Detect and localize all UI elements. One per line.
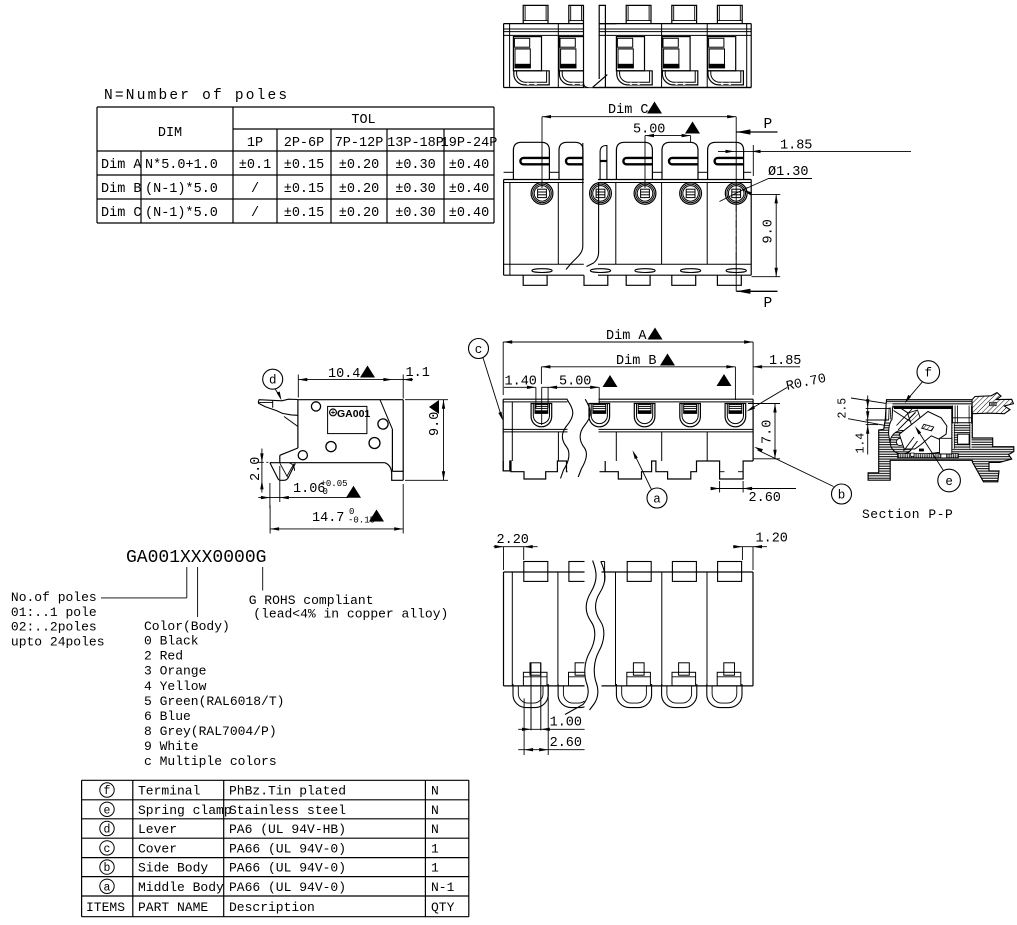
bottom view pin wide rect bbox=[569, 672, 593, 686]
top view pole separators bbox=[557, 24, 559, 88]
svg-text:Dim B: Dim B bbox=[616, 354, 657, 369]
svg-text:QTY: QTY bbox=[431, 900, 455, 915]
dim Dim C bbox=[542, 116, 736, 118]
svg-text:PhBz.Tin plated: PhBz.Tin plated bbox=[229, 784, 346, 799]
parts table row Cover bbox=[100, 841, 114, 855]
front view lever bbox=[616, 142, 652, 179]
front view lever slot bbox=[669, 158, 698, 164]
svg-text:/: / bbox=[251, 182, 259, 197]
svg-text:9 White: 9 White bbox=[144, 739, 199, 754]
front view lever bbox=[708, 142, 744, 179]
section P-P lever cut flag bbox=[972, 393, 1013, 414]
front view body bbox=[504, 179, 752, 181]
svg-text:P: P bbox=[764, 296, 773, 312]
svg-text:PA6 (UL 94V-HB): PA6 (UL 94V-HB) bbox=[229, 822, 346, 837]
dimAB wire clamp D bbox=[725, 404, 746, 427]
bottom view pin tab bbox=[524, 562, 548, 582]
side view foot bbox=[270, 463, 295, 481]
svg-text:a: a bbox=[653, 492, 661, 506]
svg-text:02:..2poles: 02:..2poles bbox=[11, 620, 97, 635]
section P-P terminal plate f bbox=[894, 407, 952, 409]
svg-text:±0.20: ±0.20 bbox=[339, 206, 380, 221]
bottom view pole separators bbox=[557, 572, 559, 686]
top view horizontal bands bbox=[504, 28, 752, 30]
dim 10.4 side bbox=[298, 379, 413, 381]
dimAB break bbox=[568, 398, 599, 480]
svg-text:PA66 (UL 94V-0): PA66 (UL 94V-0) bbox=[229, 841, 346, 856]
svg-text:PART NAME: PART NAME bbox=[138, 900, 208, 915]
front view wire hole rings bbox=[634, 183, 656, 205]
side view inner wall bbox=[380, 400, 392, 429]
svg-text:Color(Body): Color(Body) bbox=[144, 619, 230, 634]
bottom view body bbox=[504, 571, 754, 573]
svg-text:N: N bbox=[431, 803, 439, 818]
front view lever bbox=[559, 142, 583, 179]
side view logo box bbox=[328, 406, 367, 433]
svg-text:Dim A: Dim A bbox=[606, 329, 647, 344]
svg-text:1.85: 1.85 bbox=[769, 354, 801, 369]
section P-P lever shaft bbox=[894, 411, 923, 430]
svg-text:1.4: 1.4 bbox=[855, 433, 868, 454]
dim 5.00 front bbox=[645, 135, 691, 137]
svg-text:±0.15: ±0.15 bbox=[284, 206, 325, 221]
bottom view pin end rect bbox=[633, 663, 644, 675]
front view lever slot bbox=[623, 158, 652, 164]
dimAB wire clamp D bbox=[589, 404, 610, 427]
svg-text:Dim C: Dim C bbox=[608, 103, 649, 118]
svg-text:Section P-P: Section P-P bbox=[862, 507, 953, 522]
top view break bbox=[584, 2, 599, 87]
bottom view pin end rect bbox=[724, 663, 735, 675]
svg-text:10.4: 10.4 bbox=[328, 367, 360, 382]
svg-text:±0.20: ±0.20 bbox=[339, 158, 380, 173]
top view clamp block bbox=[616, 37, 644, 71]
dim 2.60 AB bbox=[719, 481, 721, 493]
svg-text:N=Number of poles: N=Number of poles bbox=[104, 88, 289, 104]
bottom view pin wide rect bbox=[717, 672, 741, 686]
svg-text:±0.1: ±0.1 bbox=[239, 158, 271, 173]
svg-text:8 Grey(RAL7004/P): 8 Grey(RAL7004/P) bbox=[144, 724, 277, 739]
bottom view pin tab bbox=[627, 562, 651, 582]
svg-text:GA001XXX0000G: GA001XXX0000G bbox=[126, 548, 266, 568]
svg-text:5 Green(RAL6018/T): 5 Green(RAL6018/T) bbox=[144, 694, 284, 709]
top view lever tab bbox=[717, 5, 742, 23]
svg-text:3 Orange: 3 Orange bbox=[144, 664, 206, 679]
dim 1.06 side bbox=[258, 497, 348, 499]
svg-text:14.7: 14.7 bbox=[312, 511, 344, 526]
svg-text:PA66 (UL 94V-0): PA66 (UL 94V-0) bbox=[229, 880, 346, 895]
svg-text:b: b bbox=[838, 488, 846, 502]
svg-text:upto 24poles: upto 24poles bbox=[11, 635, 105, 650]
front view break bbox=[584, 140, 598, 276]
svg-text:±0.40: ±0.40 bbox=[449, 206, 490, 221]
dim 1.85 AB bbox=[753, 366, 800, 368]
svg-text:6 Blue: 6 Blue bbox=[144, 709, 191, 724]
section P-P bottom strip bbox=[898, 454, 959, 458]
svg-text:2 Red: 2 Red bbox=[144, 649, 183, 664]
front view lever bbox=[513, 142, 549, 179]
bottom view pin tab bbox=[569, 562, 593, 582]
svg-text:1.20: 1.20 bbox=[756, 532, 788, 547]
section P-P spring cut mark bbox=[922, 424, 934, 431]
section P-P wall slivers bbox=[953, 424, 955, 449]
front view bottom ovals bbox=[532, 269, 552, 273]
front view break pin tab bbox=[584, 275, 608, 285]
bottom view pin slot lines pole1 bbox=[530, 663, 532, 731]
dim 2.0 left side bbox=[261, 449, 263, 493]
svg-text:d: d bbox=[269, 374, 277, 388]
svg-text:2.0: 2.0 bbox=[249, 457, 264, 481]
top view clamp block bbox=[559, 37, 587, 71]
svg-text:Ø1.30: Ø1.30 bbox=[768, 165, 809, 180]
parts table row Spring clamp bbox=[100, 802, 114, 816]
section P-P cage window bbox=[953, 406, 972, 424]
svg-text:7.0: 7.0 bbox=[761, 420, 776, 444]
top view spring U bbox=[559, 71, 594, 85]
balloon a bbox=[647, 488, 667, 508]
svg-text:Dim A: Dim A bbox=[101, 158, 142, 173]
svg-text:c: c bbox=[104, 843, 111, 856]
svg-text:2.20: 2.20 bbox=[497, 533, 529, 548]
ordering code tick X1 bbox=[186, 567, 188, 598]
side view lever lower edge bbox=[284, 417, 298, 427]
dim 9.0 side bbox=[405, 399, 448, 401]
top view spring U bbox=[514, 71, 549, 85]
section P-P lower white pocket bbox=[940, 438, 952, 454]
balloon c bbox=[469, 339, 489, 359]
top view lever tab bbox=[569, 5, 584, 23]
section P-P side body cut bbox=[868, 400, 1014, 482]
front view wire hole rings bbox=[725, 183, 747, 205]
dimAB wire clamp D bbox=[531, 404, 552, 427]
svg-text:±0.15: ±0.15 bbox=[284, 158, 325, 173]
side view body outline bbox=[298, 399, 403, 401]
bottom view solder U bbox=[662, 684, 697, 708]
svg-text:±0.40: ±0.40 bbox=[449, 182, 490, 197]
svg-text:a: a bbox=[104, 881, 111, 894]
svg-text:Terminal: Terminal bbox=[138, 784, 201, 799]
svg-text:9.0: 9.0 bbox=[762, 219, 777, 243]
balloon f bbox=[917, 361, 940, 384]
top view lever tab bbox=[626, 5, 651, 23]
top view lever tab bbox=[523, 5, 548, 23]
dim 1.00 bbox=[518, 728, 584, 730]
section P-P top-left white wedge bbox=[886, 404, 893, 423]
svg-text:±0.20: ±0.20 bbox=[339, 182, 380, 197]
front view break sliver bbox=[600, 146, 607, 180]
svg-text:Cover: Cover bbox=[138, 841, 177, 856]
svg-text:0: 0 bbox=[323, 487, 328, 497]
front view pole separators bbox=[557, 183, 559, 265]
dimAB wire clamp D bbox=[634, 404, 655, 427]
svg-text:13P-18P: 13P-18P bbox=[387, 136, 444, 151]
svg-text:N*5.0+1.0: N*5.0+1.0 bbox=[145, 158, 218, 173]
svg-text:N: N bbox=[431, 822, 439, 837]
svg-text:±0.30: ±0.30 bbox=[395, 206, 436, 221]
front view wire hole rings bbox=[531, 183, 553, 205]
tolerance table grid bbox=[97, 106, 494, 108]
section P-P spring lines bbox=[904, 437, 915, 451]
bottom view pin tab bbox=[718, 562, 742, 582]
top view clamp block bbox=[708, 37, 736, 71]
top view spring U bbox=[708, 71, 743, 85]
balloon b bbox=[832, 484, 852, 504]
svg-text:±0.15: ±0.15 bbox=[284, 182, 325, 197]
dim 1.40 bbox=[504, 386, 536, 388]
svg-text:1.1: 1.1 bbox=[406, 366, 430, 381]
dimAB bottom teeth bbox=[503, 461, 573, 479]
svg-text:Description: Description bbox=[229, 900, 315, 915]
svg-text:c Multiple colors: c Multiple colors bbox=[144, 754, 277, 769]
bottom view break bbox=[585, 558, 602, 710]
bottom view pin wide rect bbox=[672, 672, 696, 686]
front view oval pole2 bbox=[590, 269, 610, 273]
svg-text:1: 1 bbox=[431, 861, 439, 876]
svg-text:b: b bbox=[104, 862, 111, 875]
top view lever tab bbox=[672, 5, 697, 23]
dim 2.5 line and arrows bbox=[867, 396, 869, 455]
section P-P spring seat notch bbox=[958, 434, 970, 444]
svg-text:5.00: 5.00 bbox=[633, 123, 665, 138]
svg-text:2.5: 2.5 bbox=[837, 398, 850, 419]
svg-text:P: P bbox=[764, 117, 773, 133]
bottom view solder U bbox=[558, 684, 593, 708]
svg-text:Stainless steel: Stainless steel bbox=[229, 803, 346, 818]
top view spring U bbox=[662, 71, 697, 85]
side view holes bbox=[311, 402, 320, 411]
bottom view solder U bbox=[513, 684, 548, 708]
balloon d bbox=[263, 369, 283, 389]
svg-text:(N-1)*5.0: (N-1)*5.0 bbox=[145, 206, 218, 221]
dimAB view body bbox=[503, 398, 753, 400]
svg-text:19P-24P: 19P-24P bbox=[441, 136, 498, 151]
section line P top bbox=[735, 117, 737, 292]
dim 1.1 side bbox=[403, 378, 412, 381]
front view lever slot bbox=[566, 158, 583, 164]
svg-text:9.0: 9.0 bbox=[428, 412, 443, 436]
front view lever bbox=[662, 142, 698, 179]
parts table grid bbox=[82, 779, 469, 781]
svg-text:1.85: 1.85 bbox=[780, 139, 812, 154]
svg-text:Side Body: Side Body bbox=[138, 861, 208, 876]
svg-text:f: f bbox=[104, 785, 111, 798]
dim 7.0 bbox=[748, 403, 780, 405]
dim 5.00 AB bbox=[542, 386, 600, 388]
svg-text:01:..1 pole: 01:..1 pole bbox=[11, 605, 97, 620]
svg-text:N-1: N-1 bbox=[431, 880, 455, 895]
parts table row Side Body bbox=[100, 860, 114, 874]
svg-text:1.40: 1.40 bbox=[505, 375, 537, 390]
svg-text:4 Yellow: 4 Yellow bbox=[144, 679, 207, 694]
front view lever top connectors bbox=[504, 171, 514, 173]
front view lever slot bbox=[715, 158, 744, 164]
front view wire hole rings bbox=[590, 183, 612, 205]
parts table row Terminal bbox=[100, 783, 114, 797]
section P-P wire hook bbox=[890, 431, 914, 455]
svg-text:±0.30: ±0.30 bbox=[395, 158, 436, 173]
dim 9.0 front bbox=[752, 193, 781, 195]
svg-text:e: e bbox=[104, 804, 111, 817]
parts table row Lever bbox=[100, 821, 114, 835]
top view body outline bbox=[504, 23, 752, 25]
bottom view break sliver tab bbox=[601, 561, 605, 563]
dim Dim B bbox=[541, 366, 735, 368]
side view lever bbox=[258, 399, 298, 415]
top view break right sliver bbox=[599, 5, 605, 23]
svg-text:Lever: Lever bbox=[138, 822, 177, 837]
svg-text:1P: 1P bbox=[247, 136, 263, 151]
svg-text:(N-1)*5.0: (N-1)*5.0 bbox=[145, 182, 218, 197]
svg-text:No.of poles: No.of poles bbox=[11, 590, 97, 605]
svg-text:PA66 (UL 94V-0): PA66 (UL 94V-0) bbox=[229, 861, 346, 876]
top view clamp block bbox=[513, 37, 541, 71]
svg-text:e: e bbox=[945, 475, 953, 489]
svg-text:2.60: 2.60 bbox=[749, 491, 781, 506]
ordering code tick G bbox=[262, 567, 264, 591]
section P-P cavity bbox=[889, 407, 952, 455]
bottom view solder U bbox=[707, 684, 742, 708]
svg-text:ITEMS: ITEMS bbox=[86, 900, 125, 915]
svg-text:Middle Body: Middle Body bbox=[138, 880, 224, 895]
dimAB pole separators bbox=[557, 432, 559, 461]
side view centerline bbox=[257, 461, 272, 463]
dim Dim A bbox=[503, 341, 753, 343]
svg-text:5.00: 5.00 bbox=[559, 375, 591, 390]
bottom view pin end rect bbox=[679, 663, 690, 675]
ordering code tick X2 bbox=[197, 567, 199, 617]
bottom view pin wide rect bbox=[523, 672, 547, 686]
svg-text:/: / bbox=[251, 206, 259, 221]
ordering code leader no of poles bbox=[101, 597, 187, 599]
svg-text:1: 1 bbox=[431, 841, 439, 856]
svg-text:Dim C: Dim C bbox=[101, 206, 142, 221]
svg-text:±0.40: ±0.40 bbox=[449, 158, 490, 173]
svg-text:0 Black: 0 Black bbox=[144, 634, 199, 649]
dim dia 1.30 leader bbox=[720, 188, 748, 202]
balloon e bbox=[938, 469, 961, 492]
svg-text:2P-6P: 2P-6P bbox=[284, 136, 325, 151]
top view clamp block bbox=[662, 37, 690, 71]
bottom view solder U bbox=[616, 684, 651, 708]
front view wire hole rings bbox=[680, 183, 702, 205]
svg-text:Spring clamp: Spring clamp bbox=[138, 803, 232, 818]
svg-text:7P-12P: 7P-12P bbox=[335, 136, 384, 151]
top view spring U bbox=[617, 71, 652, 85]
bottom view pin wide rect bbox=[627, 672, 651, 686]
svg-text:d: d bbox=[104, 824, 111, 837]
svg-text:c: c bbox=[475, 343, 483, 357]
parts table row Middle Body bbox=[100, 879, 114, 893]
section P-P flag mark bbox=[990, 402, 997, 405]
section line P bottom bbox=[736, 289, 750, 294]
bottom view pin end rect bbox=[575, 663, 586, 675]
dim 2.5 section ext lines bbox=[851, 398, 886, 403]
front view pin tabs bbox=[523, 275, 547, 285]
svg-text:GA001: GA001 bbox=[337, 408, 370, 420]
bottom view pin end rect bbox=[530, 663, 541, 675]
bottom view pin tab bbox=[672, 562, 696, 582]
svg-text:N: N bbox=[431, 784, 439, 799]
svg-text:2.60: 2.60 bbox=[550, 736, 582, 751]
section P-P spring clamp e bbox=[899, 412, 947, 450]
svg-text:DIM: DIM bbox=[158, 126, 182, 141]
front view lever slot bbox=[520, 158, 549, 164]
svg-text:1.00: 1.00 bbox=[550, 716, 582, 731]
dimAB wire clamp D bbox=[680, 404, 701, 427]
svg-text:f: f bbox=[925, 366, 933, 380]
dim 2.60 bottom bbox=[523, 698, 525, 755]
front view centerline pole5 bbox=[735, 204, 737, 264]
dim 14.7 side bbox=[270, 528, 403, 530]
svg-text:TOL: TOL bbox=[351, 113, 375, 128]
svg-text:±0.30: ±0.30 bbox=[395, 182, 436, 197]
dim 1.85 front bbox=[718, 150, 911, 152]
svg-text:(lead<4% in copper alloy): (lead<4% in copper alloy) bbox=[253, 607, 448, 622]
svg-text:Dim B: Dim B bbox=[101, 182, 142, 197]
